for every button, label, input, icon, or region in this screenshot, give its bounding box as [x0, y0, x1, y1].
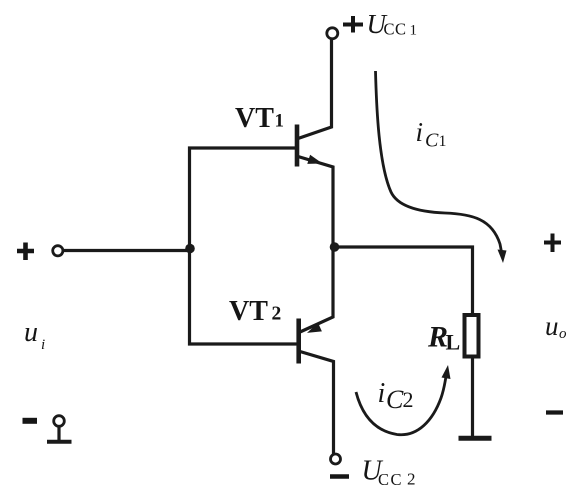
svg-text:1: 1: [410, 23, 418, 39]
svg-text:C: C: [386, 385, 404, 414]
svg-text:i: i: [416, 117, 424, 147]
svg-text:L: L: [446, 330, 461, 355]
svg-text:VT: VT: [229, 296, 268, 327]
svg-text:1: 1: [275, 111, 285, 132]
svg-text:CC: CC: [378, 470, 403, 489]
svg-text:i: i: [41, 337, 45, 353]
svg-text:VT: VT: [235, 103, 274, 134]
svg-text:u: u: [24, 317, 38, 348]
svg-text:u: u: [545, 311, 559, 341]
svg-text:i: i: [378, 378, 386, 409]
svg-text:o: o: [559, 326, 567, 342]
svg-text:2: 2: [407, 470, 416, 489]
svg-text:C: C: [425, 130, 439, 152]
svg-text:1: 1: [439, 133, 447, 150]
svg-text:2: 2: [403, 387, 414, 412]
svg-text:CC: CC: [384, 20, 407, 39]
svg-text:2: 2: [272, 304, 282, 325]
